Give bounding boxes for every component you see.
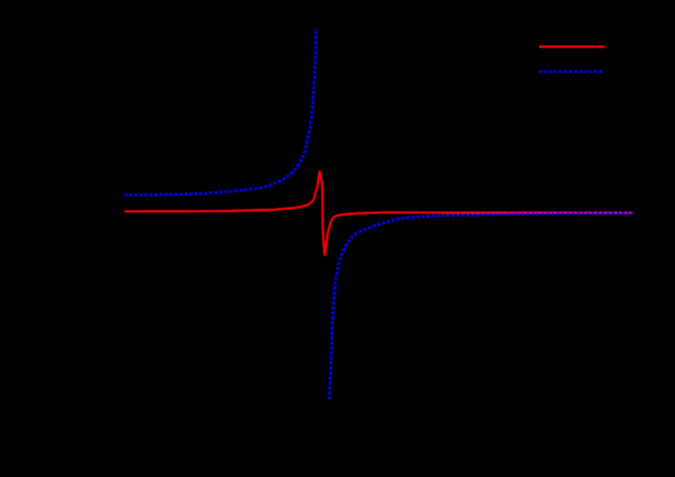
legend red line sample — [539, 46, 605, 48]
red solid curve (damped dispersion response) — [124, 172, 633, 255]
blue dotted curve right branch (returns from -infinity) — [329, 213, 633, 400]
legend blue dotted line sample — [539, 70, 603, 73]
blue dotted curve left branch (undamped, rises to +infinity) — [124, 28, 316, 195]
